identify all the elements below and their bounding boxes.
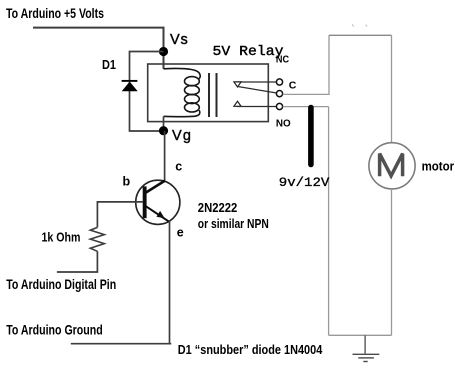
svg-text:c: c bbox=[175, 159, 182, 173]
wire NO-side vertical bbox=[328, 107, 330, 336]
wire C terminal up to motor loop bbox=[283, 35, 329, 94]
terminal C circle bbox=[276, 91, 282, 97]
svg-text:Vg: Vg bbox=[172, 128, 191, 144]
terminal NC circle bbox=[276, 79, 282, 85]
relay coil top hook bbox=[164, 68, 201, 78]
relay armature C to NC bbox=[238, 87, 277, 94]
node Vs junction dot bbox=[159, 47, 168, 56]
wire resistor bottom to Arduino digital pin bbox=[57, 251, 98, 272]
svg-text:To Arduino Ground: To Arduino Ground bbox=[6, 322, 103, 338]
svg-text:To Arduino +5 Volts: To Arduino +5 Volts bbox=[6, 5, 104, 21]
wire coil bottom lead to Vg node bbox=[163, 116, 165, 131]
svg-text:e: e bbox=[177, 225, 184, 239]
node Vg junction dot bbox=[159, 126, 168, 135]
transistor Q1 base bar bbox=[143, 186, 147, 218]
svg-text:5V Relay: 5V Relay bbox=[213, 44, 284, 60]
svg-text:NC: NC bbox=[276, 55, 289, 66]
wire bottom of motor loop bbox=[329, 334, 392, 336]
stray tick 1 above loop bbox=[352, 24, 353, 26]
relay core line left bbox=[208, 73, 210, 117]
relay NO contact line bbox=[237, 106, 276, 108]
relay NO fixed-contact triangle bbox=[234, 101, 241, 106]
wire +5V rail from Arduino to Vs node bbox=[33, 28, 164, 69]
svg-text:D1 “snubber” diode 1N4004: D1 “snubber” diode 1N4004 bbox=[178, 342, 323, 357]
wire base to resistor bbox=[97, 202, 142, 228]
wire emitter down to ground rail bbox=[169, 221, 171, 344]
svg-text:NO: NO bbox=[276, 119, 291, 130]
svg-text:or similar NPN: or similar NPN bbox=[198, 216, 269, 231]
svg-text:D1: D1 bbox=[102, 57, 116, 72]
ground symbol bbox=[353, 354, 380, 361]
relay core line right bbox=[216, 73, 218, 117]
relay coil loop 1 bbox=[185, 77, 200, 86]
svg-text:C: C bbox=[289, 79, 297, 91]
svg-text:To Arduino Digital Pin: To Arduino Digital Pin bbox=[6, 276, 116, 292]
transistor Q1 emitter stroke bbox=[146, 206, 169, 221]
relay coil loop 2 bbox=[185, 86, 200, 95]
wire collector from Vg to transistor bbox=[164, 131, 166, 181]
wire ground rail from Arduino bbox=[71, 343, 172, 345]
resistor R1 1k zigzag bbox=[90, 227, 104, 251]
relay body box bbox=[148, 64, 269, 122]
wire ground stub bbox=[364, 335, 366, 354]
wire D1 branch (Vs to diode to Vg) bbox=[130, 52, 164, 132]
battery BT1 bar 9v/12V bbox=[308, 108, 314, 165]
svg-text:1k Ohm: 1k Ohm bbox=[42, 229, 81, 244]
wire motor bottom down bbox=[391, 189, 393, 335]
wire right vertical down to motor bbox=[391, 35, 393, 143]
svg-text:b: b bbox=[123, 175, 131, 189]
motor M letter bbox=[380, 154, 403, 177]
relay coil loop 4 bbox=[185, 103, 200, 112]
transistor Q1 circle bbox=[136, 180, 180, 224]
relay NC fixed-contact triangle bbox=[234, 82, 241, 87]
svg-text:2N2222: 2N2222 bbox=[198, 200, 238, 215]
terminal NO circle bbox=[276, 103, 282, 109]
motor M1 circle bbox=[369, 143, 415, 189]
svg-text:motor: motor bbox=[422, 159, 455, 173]
relay coil bottom hook bbox=[164, 110, 200, 116]
stray tick 2 above loop bbox=[366, 25, 367, 27]
transistor Q1 emitter arrowhead bbox=[156, 211, 164, 218]
transistor Q1 collector stroke bbox=[146, 181, 165, 193]
relay NC contact line bbox=[237, 81, 276, 83]
diode D1 cathode bar bbox=[122, 80, 138, 82]
diode D1 anode triangle bbox=[122, 82, 138, 92]
relay coil loop 3 bbox=[185, 94, 200, 103]
svg-text:9v/12V: 9v/12V bbox=[279, 175, 330, 190]
wire top of motor loop bbox=[329, 34, 392, 36]
svg-text:Vs: Vs bbox=[170, 32, 188, 48]
wire NO terminal to battery loop bbox=[283, 106, 329, 108]
